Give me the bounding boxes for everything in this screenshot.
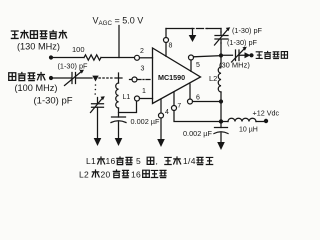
op-amp U1 MC1590 triangle [153,48,201,104]
svg-text:3: 3 [141,66,145,73]
svg-text:(130 MHz): (130 MHz) [17,42,60,52]
svg-text:5: 5 [196,62,200,69]
pin 4 [160,99,162,113]
inductor L1 [116,83,119,108]
ground (top stub) [192,29,194,37]
wire L2 to pin6 node [220,92,222,122]
node pin5/tank junction [219,53,223,57]
svg-text:L1: L1 [123,94,131,101]
svg-text:(1-30) pF: (1-30) pF [227,38,258,47]
tap arrow on signal line [92,76,98,82]
capacitor 0.002 uF right bypass [220,122,222,128]
label: IF output 中频输出 [256,51,288,59]
pin 7 [173,92,175,106]
svg-text:5: 5 [136,156,141,166]
wire signal input [53,77,71,79]
signal input terminal dot [49,76,53,80]
ground left bypass [118,122,120,139]
svg-text:8: 8 [169,43,173,50]
svg-text:6: 6 [196,95,200,102]
capacitor C3 variable (1-30) pF series [72,73,92,84]
svg-text:16: 16 [131,170,141,180]
resistor 100 [84,55,101,60]
pin 3 dash-dot wire [132,77,137,82]
dotted wire to L1 top [99,77,114,79]
ground shunt trimmer [97,107,99,139]
pin 2 [135,55,140,60]
pin 8 [164,38,169,43]
capacitor C4 variable (1-30) pF shunt [97,98,99,104]
svg-text:(1-30) pF: (1-30) pF [58,62,89,71]
svg-text:L2: L2 [79,170,89,180]
IF output terminal arrow and dot [245,52,251,58]
pin 6 [188,99,193,104]
svg-text:1/4: 1/4 [183,156,196,166]
+12V node [219,119,223,123]
svg-text:100: 100 [72,45,85,54]
wire L1 bottom to node [119,102,137,113]
svg-text:(1-30) pF: (1-30) pF [232,26,263,35]
capacitor 0.002 uF left bypass [118,113,120,118]
caption line 1: L1为16号线 5匝，直径1/4英寸 [86,156,213,166]
svg-text:20: 20 [101,170,111,180]
wire node to L2 [220,56,222,68]
capacitor C2 variable (1-30) pF output coupling [223,50,244,61]
svg-text:2: 2 [140,48,144,55]
wire C1 to node [220,43,222,56]
VAGC line [118,26,120,58]
label: local oscillator input 本地振荡输入 [11,30,67,39]
svg-text:7: 7 [178,103,182,110]
svg-text:L1: L1 [86,156,96,166]
svg-text:L2: L2 [209,74,217,83]
wire pin 8 up and stub to triangle edge [165,29,167,57]
svg-text:0.002 µF: 0.002 µF [183,129,212,138]
svg-text:16: 16 [106,156,116,166]
label: signal input 信号输入 [9,72,45,81]
svg-text:(1-30) pF: (1-30) pF [34,96,73,107]
svg-text:1: 1 [142,88,146,95]
LO input terminal dot [49,55,53,59]
caption line 2: L2为20号线16匝绕制 [79,169,167,179]
svg-text:4: 4 [165,109,169,116]
L1 top junction [115,73,122,83]
pin 5 [189,55,194,60]
svg-text:(100 MHz): (100 MHz) [15,83,58,93]
inductor RFC 10 uH [223,121,228,123]
ground right bypass [220,133,222,143]
svg-text:+12 Vdc: +12 Vdc [253,109,280,118]
top ground wire [166,28,192,30]
+12 Vdc terminal dot [264,119,268,123]
svg-text:MC1590: MC1590 [158,73,185,82]
svg-text:,: , [156,156,158,166]
wire corner into C1 [220,29,222,33]
ground pin 4 [160,118,162,140]
capacitor C1 variable (1-30) pF [215,32,228,43]
wire LO input to resistor [53,57,84,59]
wire resistor to pin 2 [101,57,134,59]
inductor L2 [218,67,221,92]
svg-text:10 µH: 10 µH [239,127,258,134]
svg-text:(30 MHz): (30 MHz) [219,61,250,70]
svg-text:0.002 µF: 0.002 µF [131,117,160,126]
pin 1 [135,96,140,101]
